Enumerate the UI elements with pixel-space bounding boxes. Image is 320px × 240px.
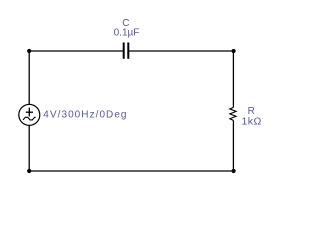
wire bottom segment [29, 170, 233, 172]
wire left lower [28, 125, 30, 171]
wire right lower [232, 120, 234, 171]
wire left upper [28, 51, 30, 105]
resistor R [230, 107, 236, 120]
svg-text:0.1µF: 0.1µF [114, 27, 140, 38]
svg-text:1kΩ: 1kΩ [241, 116, 261, 128]
wire right upper [232, 51, 234, 107]
junction bottom-right [232, 169, 236, 173]
AC source V1 [19, 104, 40, 125]
wire top-right segment [128, 50, 233, 52]
junction bottom-left [27, 169, 31, 173]
junction top-right [232, 49, 236, 53]
wire top-left segment [29, 50, 123, 52]
svg-text:4V/300Hz/0Deg: 4V/300Hz/0Deg [43, 109, 127, 120]
capacitor C [124, 43, 129, 59]
junction top-left [27, 49, 31, 53]
